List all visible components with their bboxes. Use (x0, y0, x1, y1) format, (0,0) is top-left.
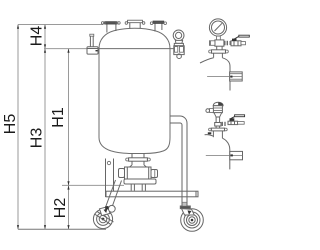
arrow H5 top (17, 25, 19, 29)
arrow H2 bottom (67, 225, 69, 229)
side bracket left (with pipe) (87, 34, 98, 54)
clamp bars right (221, 122, 223, 126)
valve left pod (119, 169, 125, 178)
dimension line H1/H2 (68, 49, 70, 230)
left leg flat bar (106, 159, 114, 198)
svg-text:H3: H3 (29, 128, 46, 149)
dome fragment (200, 58, 214, 63)
dimension line H5 (17, 25, 19, 230)
dome fragment 2 (205, 135, 214, 137)
gauge stem (217, 36, 221, 40)
valve bottom plate (124, 179, 156, 184)
top nozzle N2 (center) (125, 20, 145, 28)
top nozzle N3 (right) (150, 21, 166, 32)
pipe stub right (241, 42, 246, 45)
left stub (210, 41, 215, 46)
extension line top (nozzle top level) (18, 24, 103, 26)
svg-text:H4: H4 (29, 26, 46, 47)
outlet clamp (129, 158, 148, 161)
nozzle clamp flange 2 (211, 128, 224, 131)
cart frame bar (106, 191, 198, 197)
bottom outlet neck (119, 154, 158, 191)
eyebolt on dome right (173, 30, 184, 46)
vent cap (213, 102, 223, 106)
svg-text:H1: H1 (50, 107, 67, 128)
tank top dome (99, 28, 170, 48)
clamp bars to valve (224, 41, 226, 46)
diagonal strut to left caster (106, 180, 122, 209)
arrow H3 bottom (44, 225, 46, 229)
section center line 2 (206, 155, 243, 157)
top nozzle N1 (left) (101, 22, 120, 33)
wall section box 2 (230, 151, 243, 159)
dimension line H4/H3 (44, 25, 46, 230)
ball valve body (231, 41, 241, 46)
ball valve 2 body (228, 121, 238, 124)
nozzle neck 2 (212, 131, 214, 137)
tank left wall (98, 49, 100, 138)
valve handle (234, 37, 239, 41)
left caster (swivelled) (93, 205, 115, 228)
arrow H4 top (44, 25, 46, 29)
right support pipe leg (170, 116, 187, 206)
left stub with circle (210, 109, 214, 113)
right caster (180, 202, 203, 231)
svg-text:H2: H2 (52, 198, 69, 219)
valve support legs (130, 184, 132, 191)
tee block (215, 123, 221, 127)
arrows H4 bottom / H3 top (44, 44, 46, 48)
arrows H1 bottom / H2 top (67, 181, 69, 185)
svg-text:H5: H5 (2, 114, 19, 135)
nozzle clamp flange (212, 50, 226, 53)
pipe down (215, 117, 217, 123)
vent body (213, 106, 222, 113)
valve right pod (151, 170, 158, 178)
tee block (215, 40, 224, 46)
funnel (214, 113, 222, 117)
ground line (18, 228, 106, 230)
right shoulder clamp assembly (174, 46, 184, 59)
tank right wall (169, 49, 171, 138)
gauge dial (209, 19, 226, 36)
valve body (125, 167, 152, 179)
pipe down to flange (215, 126, 217, 128)
pipe right (238, 122, 245, 125)
tank bottom dome (99, 138, 170, 154)
extension line seam level (44, 48, 87, 50)
neck flare feet (130, 165, 147, 167)
section center line (207, 76, 242, 78)
gauge needle (215, 23, 223, 31)
nozzle neck (213, 53, 215, 57)
valve 2 handle (230, 117, 235, 121)
stem down to flange (216, 46, 218, 50)
tank seam line (99, 48, 174, 50)
wall section box (230, 72, 243, 81)
extension line valve bottom level (62, 184, 124, 186)
arrow H5 bottom (17, 225, 19, 229)
arrow H1 top (67, 49, 69, 53)
